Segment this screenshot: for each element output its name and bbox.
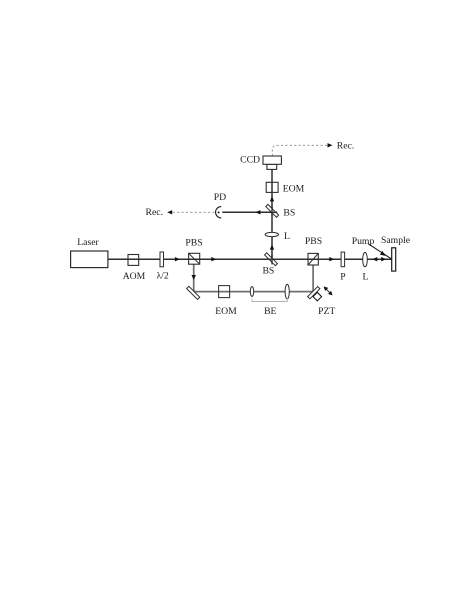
svg-text:Rec.: Rec.: [146, 207, 163, 218]
EOM top box: [266, 182, 278, 192]
PZT double arrow: [324, 286, 333, 295]
upper BS bar: [266, 204, 279, 217]
svg-text:Pump: Pump: [352, 236, 375, 247]
svg-text:BE: BE: [264, 306, 276, 317]
CCD small box: [267, 164, 277, 169]
arrow on beam after right PBS: [329, 257, 334, 261]
svg-text:L: L: [284, 231, 290, 242]
BE lens 1: [250, 287, 253, 297]
wire lower loop: PBS down to mirror: [193, 264, 195, 291]
svg-text:EOM: EOM: [215, 306, 237, 317]
pump arrow line: [368, 244, 391, 259]
PD detector arc: [216, 207, 222, 218]
PZT diamond: [313, 292, 322, 301]
arrow to top Rec: [328, 143, 333, 147]
sample plate: [392, 248, 396, 271]
svg-text:PD: PD: [214, 192, 226, 203]
P plate: [341, 252, 345, 267]
arrow down toward mirror: [192, 275, 196, 280]
BE bracket: [252, 298, 287, 301]
svg-text:CCD: CCD: [240, 155, 260, 166]
wire BS to PD: [222, 211, 272, 213]
wire detection vertical: [271, 169, 273, 259]
arrow on beam after lambda/2: [175, 257, 180, 261]
arrow left toward PD: [255, 210, 260, 214]
svg-text:L: L: [362, 272, 368, 283]
wire lower loop: PZT up to right PBS: [312, 265, 314, 292]
arrow on beam after left PBS: [211, 257, 216, 261]
left PBS diagonal: [189, 253, 200, 264]
laser box: [71, 251, 108, 268]
svg-text:P: P: [340, 272, 345, 283]
svg-text:λ/2: λ/2: [156, 270, 168, 281]
right lens L: [363, 252, 368, 266]
svg-text:BS: BS: [262, 266, 274, 277]
PZT mirror bar: [308, 287, 320, 299]
CCD big box: [263, 156, 281, 164]
wire through central BS: [266, 258, 277, 260]
wire lower loop: mirror to PZT: [194, 291, 313, 293]
PD dot: [218, 211, 220, 213]
svg-text:BS: BS: [283, 208, 295, 219]
right PBS diagonal: [308, 253, 318, 265]
svg-text:AOM: AOM: [123, 271, 146, 282]
right PBS box: [308, 253, 318, 265]
svg-text:PBS: PBS: [185, 237, 202, 248]
arrow up toward lens L: [270, 245, 274, 250]
pump arrowhead: [380, 251, 385, 256]
arrow to left Rec: [167, 210, 172, 214]
arrow up toward EOM: [270, 196, 274, 201]
double arrow probe near sample: [372, 257, 377, 261]
svg-text:Rec.: Rec.: [337, 141, 354, 152]
svg-text:Sample: Sample: [381, 235, 410, 246]
svg-text:PZT: PZT: [318, 306, 335, 317]
wire through upper BS: [267, 211, 277, 213]
wire dashed PD to Rec: [170, 211, 215, 213]
svg-text:PBS: PBS: [305, 236, 322, 247]
left PBS box: [189, 253, 200, 264]
AOM box: [128, 255, 139, 266]
svg-text:EOM: EOM: [283, 184, 305, 195]
wire dashed CCD to Rec: [272, 145, 329, 156]
mirror M1: [187, 286, 200, 299]
EOM bottom box: [219, 286, 230, 298]
svg-text:Laser: Laser: [77, 237, 99, 248]
wire main beam: [108, 258, 392, 260]
central BS bar: [265, 253, 278, 266]
upper lens L: [265, 232, 278, 236]
BE lens 2: [285, 284, 289, 299]
lambda/2 plate: [160, 252, 164, 267]
